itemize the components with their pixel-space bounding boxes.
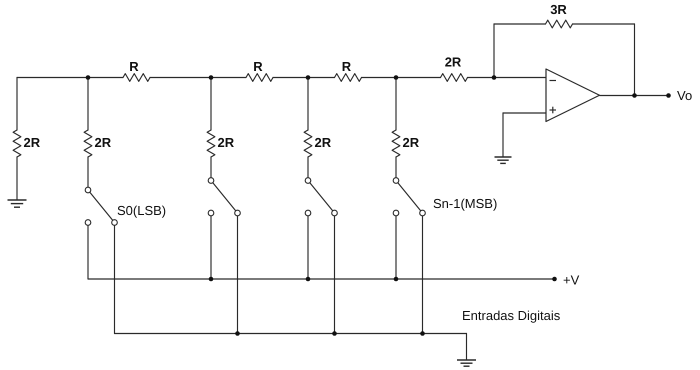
wire feedback top left segment — [494, 23, 546, 25]
switch arm (branch 2) — [211, 181, 238, 214]
switch S0 left throw contact — [85, 220, 91, 226]
switch 2 pole contact — [208, 178, 214, 184]
svg-text:3R: 3R — [550, 2, 567, 17]
svg-text:2R: 2R — [218, 135, 235, 150]
wire S0 right throw to digital rail — [114, 225, 116, 333]
wire 2R to switch pole — [210, 157, 212, 178]
wire node B to node C — [273, 77, 335, 79]
node B junction dot — [209, 75, 214, 80]
wire switch3 right throw to digital rail — [334, 216, 336, 334]
svg-text:R: R — [253, 59, 263, 74]
switch 4 pole contact (Sn-1) — [393, 178, 399, 184]
wire op-amp + input — [503, 112, 546, 114]
digital rail junction dot branch4 — [420, 331, 425, 336]
wire branch 3 down from node C — [307, 78, 309, 131]
+V rail junction dot branch2 — [209, 277, 214, 282]
wire 2R to switch pole — [395, 157, 397, 178]
wire switch4 right throw to digital rail — [422, 216, 424, 334]
output junction dot — [632, 93, 637, 98]
node D junction dot — [394, 75, 399, 80]
svg-text:Sn-1(MSB): Sn-1(MSB) — [433, 196, 497, 211]
wire feedback down to output node — [634, 24, 636, 96]
switch 4 left throw contact — [393, 210, 399, 216]
svg-text:Entradas Digitais: Entradas Digitais — [462, 308, 561, 323]
wire branch 2 down from node B — [210, 78, 212, 131]
digital rail junction dot branch3 — [332, 331, 337, 336]
svg-text:Vo: Vo — [677, 88, 692, 103]
wire switch2 right throw to digital rail — [237, 216, 239, 334]
switch S0 arm — [88, 190, 115, 223]
wire node C to 2R input resistor — [362, 77, 441, 79]
resistor 2R (branch S0) — [84, 130, 92, 157]
resistor 2R (branch 2) — [207, 130, 215, 157]
wire node A to node B — [150, 77, 246, 79]
ground (op-amp + input) — [495, 157, 512, 163]
switch 3 pole contact — [305, 178, 311, 184]
wire switch4 left throw to +V rail — [395, 216, 397, 279]
switch S0 right throw contact — [112, 220, 118, 226]
svg-text:2R: 2R — [95, 135, 112, 150]
wire 2R to ground — [16, 157, 18, 200]
wire switch2 left throw to +V rail — [210, 216, 212, 279]
switch S0 pole contact — [85, 187, 91, 193]
resistor 2R (leftmost terminating) — [13, 130, 21, 157]
+V rail junction dot branch3 — [306, 277, 311, 282]
op-amp U1 — [546, 69, 600, 122]
resistor 2R (branch Sn-1) — [392, 130, 400, 157]
resistor 3R (feedback) — [546, 20, 573, 28]
switch arm (branch 3) — [308, 181, 335, 214]
resistor R (third, ladder series) — [335, 74, 362, 82]
wire branch 1 down from node A — [87, 78, 89, 131]
wire 2R to switch S0 pole — [87, 157, 89, 187]
switch 2 left throw contact — [208, 210, 214, 216]
+V rail junction dot branch4 — [394, 277, 399, 282]
wire 2R to op-amp inverting input — [468, 77, 547, 79]
wire op-amp output to Vo terminal — [600, 95, 669, 97]
resistor R (second, ladder series) — [246, 74, 273, 82]
+V terminal dot — [552, 277, 557, 282]
svg-text:R: R — [342, 59, 352, 74]
ground (digital inputs rail) — [457, 360, 476, 366]
wire feedback up from inverting node — [493, 24, 495, 78]
switch 4 right throw contact — [420, 210, 426, 216]
wire S0 left throw to +V rail — [87, 225, 89, 279]
resistor R (first, ladder series) — [123, 74, 150, 82]
svg-text:R: R — [129, 59, 139, 74]
svg-text:+V: +V — [563, 273, 580, 288]
ground (left 2R) — [8, 200, 27, 207]
svg-text:2R: 2R — [24, 135, 41, 150]
node A junction dot — [86, 75, 91, 80]
wire top rail left end to R1 — [17, 77, 123, 79]
wire branch 4 down from node D — [395, 78, 397, 131]
svg-text:2R: 2R — [445, 55, 462, 70]
inverting input junction dot — [492, 75, 497, 80]
wire left 2R branch down — [16, 78, 18, 131]
switch 3 left throw contact — [305, 210, 311, 216]
svg-text:S0(LSB): S0(LSB) — [117, 203, 166, 218]
resistor 2R (branch 3) — [304, 130, 312, 157]
digital rail junction dot branch2 — [235, 331, 240, 336]
wire + input down to ground — [502, 113, 504, 157]
wire feedback top right segment — [573, 23, 635, 25]
switch 2 right throw contact — [235, 210, 241, 216]
node C junction dot — [306, 75, 311, 80]
wire 2R to switch pole — [307, 157, 309, 178]
svg-text:2R: 2R — [315, 135, 332, 150]
resistor 2R (series to op-amp) — [441, 74, 468, 82]
switch arm (branch 4, Sn-1) — [396, 181, 423, 214]
wire switch3 left throw to +V rail — [307, 216, 309, 279]
switch 3 right throw contact — [332, 210, 338, 216]
Vo terminal dot — [666, 93, 671, 98]
svg-text:2R: 2R — [403, 135, 420, 150]
wire digital inputs rail — [115, 333, 467, 335]
wire digital rail to ground — [466, 334, 468, 360]
wire +V rail — [88, 278, 555, 280]
